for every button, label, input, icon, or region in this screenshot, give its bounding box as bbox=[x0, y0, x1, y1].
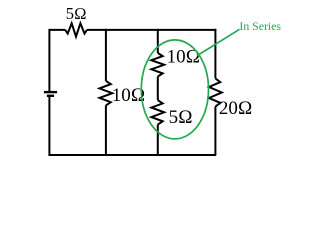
wire top rail left segment bbox=[49, 29, 65, 31]
svg-text:10Ω: 10Ω bbox=[112, 85, 146, 106]
svg-text:In Series: In Series bbox=[239, 19, 281, 33]
resistor R4 5Ω (branch 3 lower, vertical) bbox=[151, 100, 164, 124]
wire branch 4 lower bbox=[214, 107, 216, 155]
resistor R3 10Ω (branch 3 upper, vertical) bbox=[151, 53, 164, 77]
wire branch 2 upper bbox=[105, 29, 107, 81]
wire top rail right segment bbox=[87, 29, 216, 31]
svg-text:5Ω: 5Ω bbox=[66, 4, 87, 23]
battery V1 long plate bbox=[44, 91, 57, 93]
battery V1 short plate bbox=[47, 95, 54, 97]
wire branch 2 lower bbox=[105, 105, 107, 155]
annotation ellipse around series resistors bbox=[141, 40, 208, 139]
wire bottom rail bbox=[48, 154, 216, 156]
wire left branch upper bbox=[48, 29, 50, 92]
wire branch 3 lower bbox=[157, 125, 159, 156]
resistor R2 10Ω (branch 2, vertical) bbox=[100, 81, 113, 106]
svg-text:20Ω: 20Ω bbox=[219, 98, 253, 119]
svg-text:5Ω: 5Ω bbox=[169, 107, 193, 128]
wire branch 3 upper bbox=[157, 29, 159, 53]
resistor R5 20Ω (branch 4, vertical) bbox=[209, 78, 222, 106]
resistor R1 5Ω (top, horizontal) bbox=[65, 23, 87, 36]
annotation leader line bbox=[197, 29, 239, 55]
wire branch 4 upper bbox=[214, 29, 216, 79]
wire branch 3 middle bbox=[157, 77, 159, 101]
wire left branch lower bbox=[48, 96, 50, 155]
